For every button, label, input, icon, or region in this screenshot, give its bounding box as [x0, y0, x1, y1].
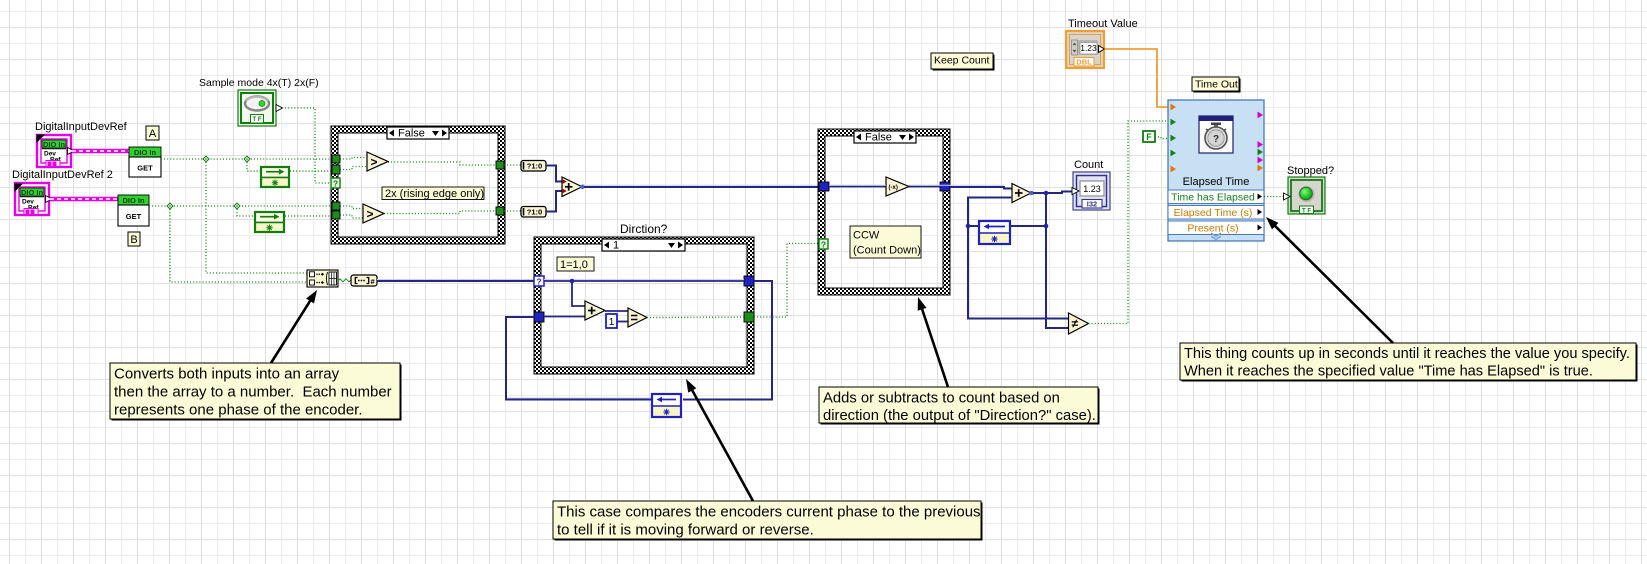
svg-text:?: ? — [333, 179, 338, 189]
feedback node FB2 (boolean) — [254, 211, 285, 233]
label Time Out — [1194, 79, 1241, 93]
refnum control DigitalInputDevRef — [37, 135, 75, 168]
svg-text:represents one phase of the en: represents one phase of the encoder. — [114, 401, 363, 418]
svg-text:A: A — [149, 128, 157, 140]
svg-text:DBL: DBL — [1076, 58, 1092, 67]
svg-text:1.23: 1.23 — [1083, 184, 1101, 194]
wire Dirction phase loop — [683, 281, 772, 400]
annotation arrow to Dirction case — [691, 389, 753, 501]
svg-text:F: F — [1146, 132, 1152, 142]
svg-text:This case compares the encoder: This case compares the encoders current … — [557, 503, 981, 520]
svg-text:False: False — [398, 128, 425, 140]
wire add to equal — [605, 310, 628, 312]
wire count down to not-equal — [1046, 193, 1069, 328]
svg-text:1=1,0: 1=1,0 — [560, 259, 588, 271]
boolean constant F — [1143, 131, 1155, 142]
svg-text:I32: I32 — [1087, 200, 1097, 209]
svg-text:Elapsed Time (s): Elapsed Time (s) — [1174, 207, 1253, 219]
svg-text:(Count Down): (Count Down) — [853, 245, 921, 257]
negate node — [886, 177, 909, 196]
annotation arrow to case2 — [922, 307, 949, 387]
wire F to elapsed — [1155, 137, 1168, 139]
junction count2 — [1044, 224, 1049, 229]
svg-text:?1:0: ?1:0 — [527, 162, 542, 171]
svg-text:Stopped?: Stopped? — [1287, 165, 1334, 177]
junction B1 — [167, 203, 173, 209]
svg-text:DIO In: DIO In — [134, 148, 157, 157]
boolean array wire (zigzag) — [338, 279, 351, 282]
svg-text:?: ? — [1213, 134, 1219, 145]
wires inside case1 — [340, 158, 367, 160]
svg-text:?: ? — [536, 277, 541, 287]
wire not-equal to elapsed (boolean) — [1089, 121, 1169, 324]
comment this case compares — [555, 503, 983, 541]
add node Dirction — [585, 301, 605, 320]
case structure 1 selector False — [387, 127, 449, 139]
feedback node FB1 (boolean) — [260, 166, 290, 188]
svg-text:Timeout Value: Timeout Value — [1068, 18, 1138, 30]
svg-text:B: B — [130, 234, 137, 246]
junction count1 — [1044, 191, 1049, 196]
svg-text:direction (the output of "Dire: direction (the output of "Direction?" ca… — [823, 408, 1096, 424]
boolean to 0,1 node 2 — [504, 210, 521, 212]
junction FB4 — [966, 224, 971, 229]
add node 2 — [1012, 184, 1031, 203]
tunnel case1 left B prev — [332, 211, 340, 219]
label B — [128, 232, 140, 246]
wire phase number to Dirction case — [377, 279, 534, 281]
wire case2 to add2 — [829, 184, 886, 186]
wire FB1 out — [290, 170, 332, 172]
stopwatch icon — [1199, 116, 1233, 153]
label 1=1,0 — [557, 257, 594, 271]
svg-text:Count: Count — [1074, 159, 1103, 171]
svg-text:False: False — [865, 132, 892, 144]
wires inside case2 — [829, 186, 886, 188]
wire phase through Dirction — [544, 279, 744, 281]
case structure 1 border — [331, 126, 505, 244]
selector tunnel Dirction — [534, 276, 544, 286]
svg-text:GET: GET — [126, 212, 142, 221]
svg-text:Time Out: Time Out — [1195, 79, 1238, 91]
tunnel Dirction left (prev phase) — [534, 312, 544, 322]
tunnel case1 right bottom — [496, 207, 504, 215]
build array node — [307, 270, 338, 287]
indicator Count — [1072, 172, 1110, 210]
boolean LED indicator Stopped? — [1284, 177, 1326, 214]
numeric control Timeout Value — [1066, 31, 1105, 68]
svg-text:(-x): (-x) — [889, 185, 898, 191]
svg-text:Present (s): Present (s) — [1187, 223, 1238, 235]
greater? node 1 — [367, 152, 388, 171]
svg-text:then the array to a number. E: then the array to a number. Each number — [114, 383, 392, 400]
svg-text:1: 1 — [609, 317, 615, 328]
wire timeout to elapsed (orange) — [1105, 49, 1169, 107]
wire to FB4 — [1011, 225, 1046, 227]
wire add2 to Count — [1033, 192, 1072, 194]
svg-text:T F: T F — [1302, 208, 1311, 214]
wire A (boolean dotted) — [161, 158, 332, 160]
express VI Elapsed Time — [1168, 100, 1264, 241]
boolean to 0,1 node 1 — [504, 164, 521, 166]
wire prev phase to add — [544, 316, 585, 318]
wire refnum 1 (magenta dashed) — [72, 149, 130, 154]
junction B2 — [234, 203, 240, 209]
equal? node — [628, 308, 647, 327]
tunnel Dirction right (phase out) — [744, 276, 754, 286]
refnum control DigitalInputDevRef 2 — [15, 183, 53, 215]
svg-text:Dirction?: Dirction? — [620, 222, 668, 236]
svg-text:Time has Elapsed: Time has Elapsed — [1171, 192, 1255, 204]
wire add1 to case2 (phase sum) — [584, 184, 818, 186]
svg-text:Elapsed Time: Elapsed Time — [1183, 176, 1250, 188]
output row Present (s) — [1168, 221, 1264, 235]
wire FB2 out — [285, 215, 332, 217]
svg-text:2x (rising edge only): 2x (rising edge only) — [385, 188, 484, 200]
svg-text:1: 1 — [613, 240, 619, 252]
label 2x (rising edge only) — [382, 187, 484, 200]
tunnel Dirction right (bool out) — [744, 312, 754, 322]
junction A2 — [244, 156, 250, 162]
svg-text:1.23: 1.23 — [1080, 43, 1097, 53]
selector tunnel case1 — [331, 178, 340, 188]
case structure 2 border — [818, 129, 950, 295]
constant 1 — [606, 314, 617, 328]
svg-text:?: ? — [821, 240, 826, 250]
wire time has elapsed to Stopped (dotted) — [1264, 196, 1283, 198]
case selector 1 — [602, 239, 685, 251]
label CCW (Count Down) — [850, 226, 921, 258]
svg-text:≠: ≠ — [1072, 317, 1079, 331]
svg-text:GET: GET — [137, 164, 153, 173]
svg-text:Keep Count: Keep Count — [934, 55, 990, 67]
svg-text:When it reaches the specified: When it reaches the specified value "Tim… — [1184, 364, 1593, 380]
junction A1 — [203, 156, 209, 162]
feedback node FB4 (count memory) — [978, 220, 1011, 245]
wire sample mode to case selector — [282, 108, 331, 183]
wire const to equal — [617, 321, 628, 323]
annotation arrow to build array — [271, 299, 311, 363]
svg-text:DIO In: DIO In — [122, 196, 145, 205]
svg-text:DIO In: DIO In — [43, 140, 66, 149]
tunnel case1 right top — [496, 161, 504, 169]
output row Elapsed Time (s) — [1168, 206, 1264, 220]
boolean TTL control Sample mode — [238, 90, 283, 126]
comment this thing counts — [1182, 345, 1638, 382]
comment converts both inputs — [112, 365, 402, 421]
wire b1 to add — [546, 166, 562, 182]
label Keep Count — [933, 55, 995, 71]
svg-text:DigitalInputDevRef: DigitalInputDevRef — [35, 121, 128, 133]
svg-text:CCW: CCW — [853, 230, 880, 242]
selector tunnel case2 — [819, 239, 828, 249]
not equal node — [1069, 313, 1089, 334]
svg-text:?1:0: ?1:0 — [527, 208, 542, 217]
wire FB4 out — [968, 225, 978, 227]
add node 1 — [562, 177, 582, 197]
svg-text:to tell if it is moving forwar: to tell if it is moving forward or rever… — [557, 521, 814, 538]
case structure Dirction? border — [534, 237, 754, 374]
junction Dirction — [570, 279, 575, 284]
tunnel case1 left A prev — [332, 165, 340, 174]
svg-text:>: > — [367, 207, 374, 221]
svg-text:DigitalInputDevRef 2: DigitalInputDevRef 2 — [12, 169, 113, 181]
annotation arrow to elapsed VI — [1274, 225, 1393, 343]
svg-text:Converts both inputs into an a: Converts both inputs into an array — [114, 365, 340, 382]
wire B (boolean dotted) — [149, 205, 332, 207]
svg-text:DIO In: DIO In — [21, 188, 44, 197]
comment adds or subtracts — [821, 389, 1100, 425]
wire b2 to add — [546, 191, 562, 212]
expand chevron — [1211, 233, 1221, 240]
tunnel case2 right — [940, 182, 950, 191]
tunnel case2 left — [819, 182, 829, 191]
property node GET 2 — [118, 195, 149, 226]
property node GET 1 — [129, 147, 161, 177]
svg-text:Adds or subtracts to count bas: Adds or subtracts to count based on — [823, 390, 1060, 406]
case2 selector False — [854, 131, 916, 143]
label A — [146, 126, 159, 140]
greater? node 2 — [363, 204, 384, 223]
tunnel case1 left B — [332, 202, 340, 210]
wire refnum 2 (magenta dashed) — [50, 197, 119, 202]
svg-text:T F: T F — [253, 117, 262, 123]
tunnel case1 left A — [332, 155, 340, 163]
wire equal out — [647, 316, 744, 319]
output row Time has Elapsed — [1168, 190, 1264, 204]
svg-text:This thing counts up in second: This thing counts up in seconds until it… — [1184, 346, 1630, 362]
wire Dirction bool out to case2 selector — [754, 244, 819, 318]
svg-text:>: > — [371, 155, 378, 169]
feedback node FB3 (phase memory) — [651, 393, 682, 418]
svg-text:Sample mode 4x(T) 2x(F): Sample mode 4x(T) 2x(F) — [199, 77, 319, 89]
boolean array to number node — [351, 275, 377, 286]
